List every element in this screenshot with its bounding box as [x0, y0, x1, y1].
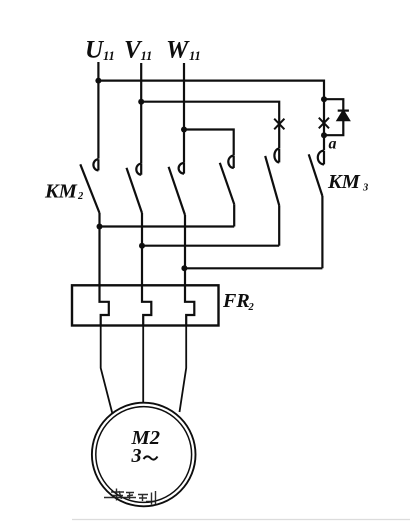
wire motor-lead W lower vertical — [184, 215, 186, 287]
label KM3 — [327, 171, 368, 194]
label KM2 — [44, 181, 84, 203]
wire FR2 to motor lead right — [180, 327, 187, 413]
wire motor-lead U lower vertical — [98, 213, 100, 287]
junction dot U branch — [95, 78, 101, 84]
junction dot tie3 on W lead — [181, 265, 187, 271]
wire branch W to contact 4 — [184, 130, 234, 156]
label node a — [329, 136, 337, 153]
svg-text:W: W — [166, 37, 190, 64]
FR2 heater element phase V — [142, 287, 151, 327]
FR2 heater element phase U — [100, 287, 109, 327]
junction dot V branch — [138, 99, 144, 105]
label U11 — [85, 37, 115, 64]
contact KM3 pole 5 (from V branch) — [265, 149, 279, 246]
crossing mark X on KM3 wire — [319, 118, 329, 129]
wire tie line contact4 bottom to U lead — [100, 225, 235, 227]
svg-text:KM: KM — [44, 181, 78, 203]
junction dot tie2 on V lead — [139, 243, 145, 249]
label M2 — [131, 427, 160, 449]
svg-text:FR: FR — [222, 290, 250, 312]
wire phase W bus vertical — [183, 63, 185, 163]
svg-text:11: 11 — [103, 49, 115, 63]
label FR2 — [222, 290, 255, 313]
wire FR2 to motor lead left — [101, 327, 113, 415]
wire phase U bus vertical — [97, 62, 99, 159]
diode D across KM3 contact wire — [324, 99, 349, 135]
svg-text:2: 2 — [77, 191, 84, 202]
wire branch U to KM3 contact 6 (top horizontal + right vertical) — [98, 81, 324, 100]
contact KM2 pole 3 (phase W) — [169, 163, 185, 215]
wire tie line contact6 bottom to W lead — [184, 267, 322, 269]
label V11 — [124, 37, 152, 64]
crossing mark X on contact 5 wire — [274, 119, 284, 130]
wire FR2 to motor lead middle — [142, 327, 144, 404]
label tilde of 3~ — [144, 456, 158, 459]
junction dot top of diode branch — [321, 96, 327, 102]
motor M2 outer circle — [92, 403, 196, 507]
svg-text:a: a — [329, 136, 337, 153]
contact KM2 pole 1 (phase U) — [80, 159, 99, 213]
motor M2 inner circle — [96, 407, 192, 503]
svg-text:11: 11 — [189, 49, 201, 63]
svg-text:3: 3 — [131, 445, 142, 467]
svg-text:2: 2 — [248, 302, 255, 313]
junction dot W branch — [181, 127, 187, 133]
label 3~ — [131, 445, 142, 467]
wire phase V bus vertical — [140, 63, 142, 164]
wire KM3 column: dot to X to node a — [323, 99, 325, 150]
contact KM3 pole 4 (from W branch) — [220, 156, 234, 227]
svg-text:KM: KM — [327, 171, 361, 193]
junction dot tie1 on U lead — [97, 224, 103, 230]
wire tie line contact5 bottom to V lead — [142, 245, 279, 247]
thermal relay FR2 box — [72, 285, 219, 325]
label W11 — [166, 37, 201, 64]
FR2 heater element phase W — [185, 287, 194, 327]
wire motor-lead V lower vertical — [141, 213, 143, 287]
wire branch V to contact 5 — [141, 102, 279, 149]
faint page rule at bottom — [72, 519, 410, 521]
junction dot node a — [321, 132, 327, 138]
svg-text:11: 11 — [141, 49, 153, 63]
svg-text:U: U — [85, 37, 105, 64]
svg-text:3: 3 — [362, 183, 368, 194]
watermark smudge — [104, 489, 156, 505]
contact KM3 pole 6 (from U branch) — [309, 151, 324, 269]
contact KM2 pole 2 (phase V) — [127, 164, 143, 213]
